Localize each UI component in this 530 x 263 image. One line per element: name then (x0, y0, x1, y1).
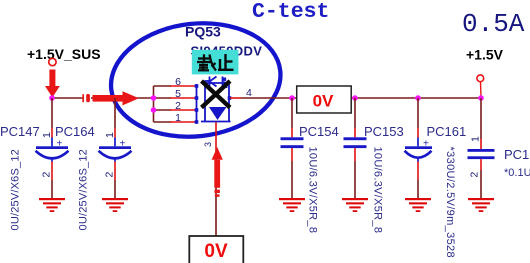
wire rail to PC161 (417, 98, 419, 128)
junction dot at +1.5V_SUS (49, 95, 55, 101)
capacitor PC154 (281, 98, 339, 233)
pin 2 lead PC153 (354, 148, 356, 161)
cross-out X over mosfet (202, 81, 231, 108)
svg-text:1: 1 (41, 132, 53, 138)
cap plates PC153 (344, 137, 367, 140)
ground PC153 (342, 198, 368, 212)
power symbol +1.5V_SUS (49, 58, 56, 65)
svg-text:2: 2 (41, 172, 53, 178)
svg-text:2: 2 (104, 172, 116, 178)
gate wire pin 3 down (215, 122, 217, 150)
mosfet PQ53 body (197, 77, 231, 124)
wire PC161 to ground (417, 180, 419, 199)
ground PC147 (39, 198, 65, 212)
cap plates PC164 (99, 146, 131, 149)
svg-text:PC164: PC164 (55, 124, 95, 139)
junction dot +1.5V tap (478, 95, 484, 101)
cap plates PC147 (36, 146, 68, 149)
hanzi 止 (218, 54, 234, 70)
wire pin4 to +1.5V rail (241, 97, 481, 99)
svg-text:6: 6 (175, 76, 181, 88)
probe arrow right (into PQ53) (93, 91, 139, 105)
pin 1 lead PC1xx (480, 139, 482, 149)
junction dot PC153 tap (352, 95, 358, 101)
svg-text:*330U/2.5V/9m_3528: *330U/2.5V/9m_3528 (444, 147, 456, 259)
measurement box 0V (gate) (189, 236, 243, 263)
wire PC153 to ground (354, 161, 356, 199)
wire PC164 pin 2 to ground (114, 180, 116, 199)
capacitor PC161 (405, 98, 467, 258)
fuse F? small symbol (83, 94, 90, 102)
svg-text:5: 5 (175, 88, 181, 100)
capacitor PC153 (344, 98, 404, 233)
pin 1 lead PC161 (417, 128, 419, 138)
pin 2 lead PC154 (291, 148, 293, 161)
pin 2 lead PC147 (51, 158, 53, 162)
pin 1 lead PC147 (51, 128, 53, 138)
svg-text:2: 2 (175, 100, 181, 112)
wire PC154 to ground (291, 161, 293, 199)
callout box 截止 (192, 50, 239, 75)
svg-text:PQ53: PQ53 (185, 24, 221, 40)
pin ladder wires PQ53 pins 6,5,2,1 (154, 86, 172, 122)
ground PC164 (102, 198, 128, 212)
mosfet pin pads (195, 84, 232, 124)
hanzi 截 (197, 54, 216, 70)
svg-text:0U/25V/X6S_12: 0U/25V/X6S_12 (78, 149, 90, 231)
capacitor PC1xx (right edge) (468, 98, 530, 199)
ground PC154 (279, 198, 305, 212)
wire +1.5V to rail (480, 82, 483, 97)
gate pad (223, 78, 226, 81)
svg-text:PC154: PC154 (299, 124, 339, 139)
wire rail to PC1xx (480, 98, 482, 139)
junction dot PC161 tap (415, 95, 421, 101)
power symbol +1.5V (477, 75, 484, 82)
svg-text:0V: 0V (313, 92, 334, 111)
wire rail to PC147 pin 1 (51, 98, 53, 128)
svg-text:0U/25V/X6S_12: 0U/25V/X6S_12 (10, 149, 22, 231)
svg-text:+1.5V_SUS: +1.5V_SUS (27, 46, 101, 62)
capacitor PC147 (0, 98, 69, 231)
svg-text:C-test: C-test (252, 0, 329, 24)
pin 2 lead PC161 (417, 158, 419, 162)
svg-text:+1.5V: +1.5V (466, 47, 504, 63)
svg-text:PC161: PC161 (427, 124, 467, 139)
svg-text:1: 1 (175, 112, 181, 124)
pin 4 stub (230, 97, 241, 99)
svg-text:0V: 0V (204, 241, 228, 262)
mosfet body diode (209, 107, 227, 120)
ground PC1xx (468, 198, 494, 212)
probe arrow up on gate (212, 147, 223, 197)
pin 1 lead PC153 (354, 128, 356, 137)
capacitor PC164 (55, 98, 132, 231)
junction dot pin2 bus (151, 107, 157, 113)
wire rail to PC154 (291, 98, 293, 128)
highlight ellipse around PQ53 (105, 15, 286, 145)
pin 1 lead PC154 (291, 128, 293, 137)
svg-text:10U/6.3V/X5R_8: 10U/6.3V/X5R_8 (372, 147, 384, 234)
probe arrow down at +1.5V_SUS (45, 70, 60, 98)
wire PC147 pin 2 to ground (51, 180, 53, 199)
wire rail to PC164 pin 1 (114, 98, 116, 128)
svg-text:PC147: PC147 (0, 124, 40, 139)
svg-text:1: 1 (104, 132, 116, 138)
junction dot PC154 tap (289, 95, 295, 101)
svg-text:*0.1U: *0.1U (504, 167, 530, 179)
cap plates PC154 (281, 137, 304, 140)
cap plates PC161 (405, 146, 432, 149)
ground PC161 (405, 198, 431, 212)
svg-text:0.5A: 0.5A (462, 9, 525, 39)
svg-text:3: 3 (203, 142, 213, 147)
svg-text:PC1: PC1 (504, 147, 529, 162)
cap plates PC1xx (468, 149, 495, 152)
pin 2 lead PC164 (114, 158, 116, 162)
pin 1 lead PC164 (114, 128, 116, 138)
wire rail to PC153 (354, 98, 356, 128)
svg-text:2: 2 (469, 172, 481, 178)
measurement box 0V (drain rail) (297, 86, 352, 113)
svg-text:10U/6.3V/X5R_8: 10U/6.3V/X5R_8 (307, 147, 319, 234)
svg-text:1: 1 (470, 136, 482, 142)
wire main rail left (52, 97, 154, 99)
pin stubs red PQ53 (170, 86, 196, 122)
junction dot pin5 bus (151, 95, 157, 101)
svg-text:PC153: PC153 (364, 124, 404, 139)
pin 2 lead PC1xx (480, 159, 482, 170)
wire PC1xx to ground (480, 170, 482, 199)
